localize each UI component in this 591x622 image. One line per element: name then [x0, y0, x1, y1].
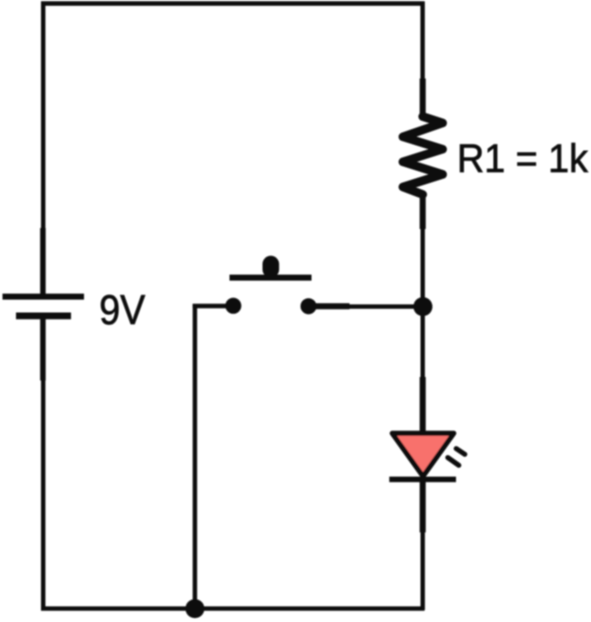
battery B1 negative plate: [16, 312, 71, 319]
resistor R1 bottom lead: [420, 193, 426, 229]
svg-text:9V: 9V: [99, 286, 145, 333]
wire: switch left branch down to junction B: [193, 304, 197, 610]
wire: right rail upper (top rail to resistor): [420, 2, 424, 83]
LED D1 light ray upper: [456, 449, 465, 455]
LED D1 anode lead: [420, 377, 426, 434]
resistor R1 top lead: [420, 79, 426, 120]
wire: switch left stub: [193, 304, 233, 309]
pushbutton S1 actuator bar: [230, 275, 312, 281]
LED D1 triangle (anode): [392, 433, 454, 476]
wire: top rail: [41, 1, 425, 5]
LED D1 cathode lead: [420, 479, 426, 532]
wire: junction A down to LED: [421, 306, 425, 379]
svg-text:R1 = 1k: R1 = 1k: [457, 137, 589, 181]
LED D1 light ray lower: [448, 458, 459, 466]
battery B1 positive lead: [40, 228, 46, 296]
resistor R1 zigzag body: [403, 117, 443, 195]
wire: resistor to junction A: [421, 227, 425, 308]
battery B1 negative lead: [40, 316, 46, 381]
LED D1 cathode bar: [389, 477, 456, 483]
wire: LED to bottom rail: [421, 530, 425, 610]
battery B1 positive plate: [3, 294, 85, 300]
wire: left rail lower (battery - to bottom rail): [41, 379, 45, 610]
pushbutton S1 right contact: [301, 298, 317, 314]
node A: junction of switch, resistor and LED: [413, 297, 432, 316]
pushbutton S1 left contact: [225, 298, 241, 314]
wire: left rail upper (top rail to battery +): [41, 2, 45, 231]
pushbutton S1 right lead: [309, 303, 350, 309]
node B: bottom junction of switch branch and bottom rail: [185, 599, 204, 618]
wire: bottom rail: [41, 606, 425, 610]
wire: switch to junction A: [347, 304, 424, 308]
pushbutton S1 actuator cap: [263, 256, 280, 278]
